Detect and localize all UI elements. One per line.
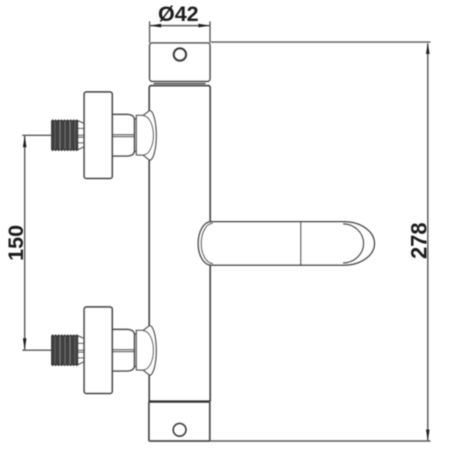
extension line right of Ø42 bbox=[209, 21, 211, 42]
extension line upper for 150 bbox=[22, 134, 51, 136]
extension line lower for 150 bbox=[22, 349, 51, 351]
arrowhead 150 top bbox=[23, 136, 27, 148]
dimension line 278 bbox=[427, 44, 429, 441]
wall-mount foot bbox=[149, 402, 210, 441]
escutcheon flange bbox=[84, 92, 112, 178]
arrowhead 278 bottom bbox=[426, 430, 430, 442]
svg-text:Ø42: Ø42 bbox=[158, 2, 199, 26]
arrowhead Ø42 right bbox=[198, 24, 210, 28]
hex nut bbox=[112, 114, 134, 156]
arrowhead 150 bottom bbox=[23, 338, 27, 350]
svg-text:150: 150 bbox=[4, 225, 28, 261]
svg-text:278: 278 bbox=[406, 222, 431, 259]
column body outline bbox=[149, 86, 210, 402]
spout divider line bbox=[300, 222, 302, 265]
collar lines between nut and dome bbox=[134, 118, 136, 120]
spout left inner contour bbox=[201, 223, 213, 263]
seam line under cap bbox=[154, 83, 206, 85]
extension line top for 278 bbox=[211, 41, 431, 43]
spout body bbox=[198, 222, 374, 265]
extension line left of Ø42 bbox=[149, 21, 151, 42]
screw hole in top cap bbox=[174, 48, 186, 60]
lower inlet fitting bbox=[52, 307, 157, 393]
arrowhead Ø42 left bbox=[150, 24, 162, 28]
connection dome on body bbox=[136, 111, 156, 161]
heavy joint line above foot bbox=[149, 400, 210, 402]
pipe neck bbox=[78, 121, 84, 150]
spout end cap inner arc bbox=[343, 224, 364, 263]
screw hole in foot bbox=[173, 423, 186, 436]
dimension line 150 bbox=[24, 136, 26, 350]
top cap of column bbox=[150, 43, 210, 81]
dome inner contour bbox=[143, 116, 153, 155]
threaded pipe bbox=[52, 121, 78, 150]
dimension line Ø42 bbox=[150, 25, 210, 27]
arrowhead 278 top bbox=[426, 43, 430, 55]
extension line bottom for 278 bbox=[210, 440, 431, 442]
upper inlet fitting bbox=[52, 92, 157, 178]
